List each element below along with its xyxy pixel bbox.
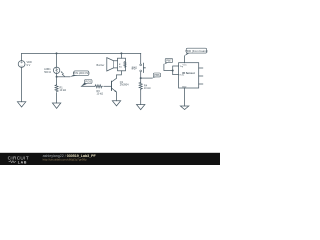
svg-text:GND: GND <box>182 86 187 88</box>
IC U1 IR Sensor <box>179 63 203 88</box>
svg-text:Buzzer: Buzzer <box>97 64 105 67</box>
label SW1 <box>132 67 138 70</box>
svg-text:2N3904: 2N3904 <box>120 84 129 87</box>
svg-text:POS (ADC Pin): POS (ADC Pin) <box>73 72 90 75</box>
svg-text:PB6: PB6 <box>154 73 160 77</box>
svg-text:Trig: Trig <box>180 66 183 68</box>
label V1 <box>27 61 32 67</box>
flag POS small <box>81 80 92 87</box>
svg-text:10 kΩ: 10 kΩ <box>144 87 151 90</box>
wire R1 to ground <box>56 93 58 103</box>
switch SW1 <box>140 63 146 72</box>
svg-text:http://circuitlab.com/c66jd3p7: http://circuitlab.com/c66jd3p7ge98p <box>43 158 87 162</box>
wire PB7 flag to pins <box>164 64 173 70</box>
svg-text:10 kΩ: 10 kΩ <box>60 89 67 92</box>
watermark line2 <box>43 158 87 162</box>
svg-text:PB7: PB7 <box>166 59 172 63</box>
svg-text:POS: POS <box>85 80 91 84</box>
svg-text:LAB: LAB <box>18 160 27 164</box>
wire VDD flag to IC top <box>184 56 186 63</box>
svg-text:VCC: VCC <box>183 64 188 66</box>
wire collector to buzzer <box>117 71 122 75</box>
label LDR1 <box>44 68 51 74</box>
wire V1 bottom <box>21 67 23 101</box>
svg-text:VDD (from board): VDD (from board) <box>185 49 208 53</box>
ground G1 <box>17 102 25 107</box>
wire node POS to flag <box>57 76 70 78</box>
wire R3 to Q1 base <box>104 85 112 87</box>
wire LDR top <box>56 53 58 67</box>
ground G4 <box>137 105 145 110</box>
resistor R1 <box>55 84 58 92</box>
wire LDR bottom to node <box>56 74 58 77</box>
flag POS (ADC Pin) <box>70 71 90 77</box>
svg-text:CIRCUIT: CIRCUIT <box>8 155 29 160</box>
label IC name <box>182 71 196 75</box>
voltage source V1 <box>18 61 25 68</box>
label buzzer internal <box>119 64 122 68</box>
wire buzzer top <box>120 53 122 58</box>
resistor R3 <box>95 85 103 88</box>
bottom bar <box>0 153 220 165</box>
wire V1 top <box>21 53 23 60</box>
logo LAB <box>18 160 27 164</box>
wire switch bottom to node <box>140 72 142 78</box>
label R3 <box>97 90 104 96</box>
flag VDD from board <box>185 48 208 56</box>
label Q1 <box>120 81 129 87</box>
wire POS net to R3 <box>81 85 95 87</box>
svg-text:9 V: 9 V <box>27 64 31 67</box>
junction dots <box>56 52 174 79</box>
label R1 <box>60 86 67 92</box>
svg-text:500 Ω: 500 Ω <box>44 71 51 74</box>
ground G3 <box>112 101 120 106</box>
svg-text:IR Sensor: IR Sensor <box>182 71 196 75</box>
wire node to R1 <box>56 77 58 85</box>
wire IC bottom to ground <box>184 88 186 106</box>
label R4 <box>144 84 151 90</box>
wire top rail <box>22 52 141 54</box>
flag PB6 <box>152 73 160 78</box>
logo zigzag <box>9 161 16 163</box>
wire R4 to ground <box>140 90 142 105</box>
transistor Q1 <box>112 75 117 101</box>
label IC pins <box>183 64 188 66</box>
buzzer BZ1 <box>107 58 126 71</box>
svg-text:SW1: SW1 <box>132 67 138 70</box>
wire switch top <box>140 53 142 64</box>
wire node to R4 <box>140 78 142 82</box>
svg-text:8Ω: 8Ω <box>119 66 122 68</box>
ground G2 <box>52 103 60 108</box>
label buzzer value <box>132 67 136 70</box>
photoresistor LDR1 <box>53 67 59 73</box>
flag PB7 <box>164 58 173 64</box>
labels <box>27 61 196 96</box>
svg-text:10 kΩ: 10 kΩ <box>97 93 104 96</box>
ground G5 <box>180 106 188 110</box>
logo CIRCUIT <box>8 155 29 160</box>
resistor R4 <box>139 82 142 90</box>
wire to Echo pin <box>173 71 179 75</box>
wire to Trig pin <box>173 66 179 71</box>
LDR light arrows <box>61 72 65 77</box>
wire node to PB6 flag <box>141 77 153 79</box>
watermark line1 <box>43 154 97 158</box>
label Buzzer <box>97 64 105 67</box>
